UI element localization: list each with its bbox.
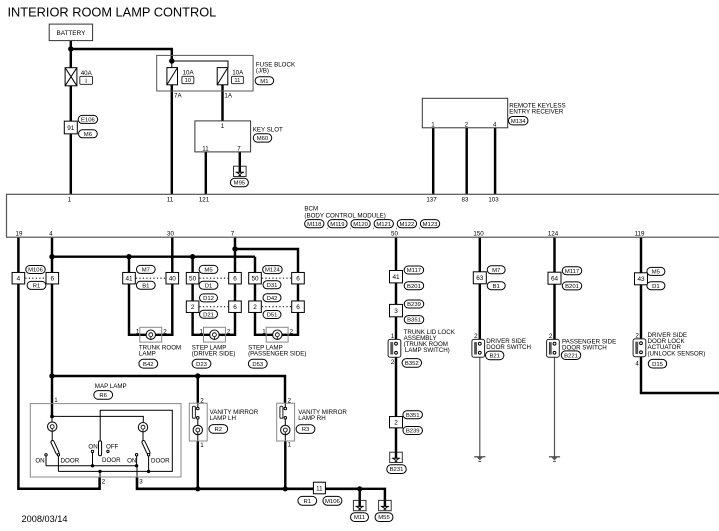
svg-text:E106: E106 [81, 118, 95, 124]
svg-text:2: 2 [549, 333, 553, 340]
svg-text:11: 11 [316, 485, 323, 492]
svg-text:M60: M60 [257, 136, 269, 142]
svg-text:40: 40 [169, 276, 177, 283]
svg-text:1: 1 [288, 442, 292, 449]
svg-text:103: 103 [488, 197, 499, 204]
svg-text:B239: B239 [406, 429, 420, 435]
svg-text:R2: R2 [215, 427, 223, 433]
svg-text:10A: 10A [183, 69, 195, 76]
svg-text:2: 2 [635, 333, 639, 340]
svg-text:1: 1 [431, 121, 435, 128]
svg-text:50: 50 [251, 276, 259, 283]
svg-text:DOOR: DOOR [102, 457, 121, 464]
svg-text:D23: D23 [196, 362, 208, 368]
svg-text:6: 6 [296, 276, 300, 283]
svg-text:M1: M1 [260, 79, 268, 85]
svg-text:B1: B1 [493, 284, 500, 290]
svg-text:M106: M106 [28, 268, 43, 274]
svg-text:2: 2 [290, 328, 294, 335]
svg-text:1A: 1A [224, 92, 232, 99]
svg-text:KEY SLOT: KEY SLOT [253, 127, 283, 134]
svg-text:6: 6 [233, 276, 237, 283]
svg-text:D42: D42 [267, 296, 278, 302]
svg-text:6: 6 [296, 304, 300, 311]
svg-text:4: 4 [635, 360, 639, 367]
svg-text:4: 4 [493, 121, 497, 128]
svg-text:63: 63 [476, 275, 484, 282]
svg-text:11: 11 [167, 197, 174, 204]
svg-text:M120: M120 [353, 222, 368, 228]
svg-text:M119: M119 [330, 222, 344, 228]
svg-text:ON: ON [88, 444, 97, 451]
svg-text:83: 83 [462, 197, 469, 204]
svg-text:M121: M121 [376, 222, 391, 228]
svg-text:D15: D15 [652, 362, 664, 368]
svg-text:6: 6 [233, 304, 237, 311]
svg-text:2: 2 [200, 397, 204, 404]
svg-text:2: 2 [288, 397, 292, 404]
svg-text:M55: M55 [378, 515, 390, 521]
svg-text:D12: D12 [203, 296, 214, 302]
svg-text:2: 2 [191, 304, 195, 311]
svg-text:DOOR: DOOR [151, 457, 170, 464]
svg-text:D21: D21 [203, 312, 214, 318]
svg-text:M7: M7 [492, 268, 500, 274]
svg-text:MAP LAMP: MAP LAMP [95, 383, 127, 390]
svg-text:B42: B42 [143, 362, 153, 368]
svg-text:M5: M5 [652, 270, 661, 276]
svg-text:1: 1 [200, 328, 204, 335]
svg-text:B351: B351 [406, 413, 420, 419]
svg-text:M5: M5 [204, 268, 213, 274]
svg-text:DOOR SWITCH: DOOR SWITCH [486, 344, 531, 351]
svg-text:B201: B201 [565, 284, 579, 290]
svg-text:2: 2 [465, 121, 469, 128]
svg-text:2: 2 [394, 420, 398, 427]
svg-text:(PASSENGER SIDE): (PASSENGER SIDE) [248, 351, 306, 358]
svg-text:(BODY CONTROL MODULE): (BODY CONTROL MODULE) [304, 212, 385, 219]
svg-text:2: 2 [102, 479, 106, 486]
svg-text:2: 2 [227, 328, 231, 335]
svg-text:M123: M123 [423, 222, 438, 228]
svg-text:M117: M117 [565, 269, 579, 275]
svg-text:1: 1 [221, 123, 225, 130]
svg-text:(DRIVER SIDE): (DRIVER SIDE) [192, 351, 236, 358]
svg-text:10A: 10A [232, 69, 244, 76]
svg-text:2: 2 [391, 359, 395, 366]
svg-text:M117: M117 [407, 268, 421, 274]
svg-text:41: 41 [125, 276, 133, 283]
svg-text:150: 150 [473, 231, 484, 238]
svg-text:41: 41 [392, 274, 400, 281]
svg-text:7: 7 [231, 231, 235, 238]
svg-text:D53: D53 [252, 362, 264, 368]
svg-text:D1: D1 [652, 284, 660, 290]
svg-text:B1: B1 [142, 283, 149, 289]
svg-text:43: 43 [637, 276, 645, 283]
svg-text:D1: D1 [205, 283, 213, 289]
svg-text:11: 11 [202, 145, 209, 152]
svg-text:2: 2 [253, 304, 257, 311]
svg-text:M106: M106 [325, 499, 340, 505]
svg-text:M11: M11 [354, 515, 365, 521]
svg-text:1: 1 [262, 328, 266, 335]
svg-text:64: 64 [551, 276, 559, 283]
svg-text:OFF: OFF [106, 444, 119, 451]
svg-text:INTERIOR ROOM LAMP CONTROL: INTERIOR ROOM LAMP CONTROL [8, 5, 217, 20]
svg-text:B231: B231 [390, 467, 404, 473]
svg-text:B239: B239 [407, 302, 421, 308]
svg-text:B221: B221 [564, 353, 578, 359]
svg-text:M118: M118 [307, 222, 322, 228]
svg-text:19: 19 [16, 231, 23, 238]
svg-text:119: 119 [635, 231, 645, 238]
svg-text:1: 1 [54, 397, 58, 404]
svg-text:LAMP RH: LAMP RH [298, 415, 325, 422]
svg-text:ENTRY RECEIVER: ENTRY RECEIVER [509, 108, 564, 115]
svg-text:(J/B): (J/B) [256, 68, 269, 75]
svg-text:LAMP: LAMP [139, 351, 156, 358]
svg-text:D31: D31 [267, 283, 278, 289]
svg-text:7A: 7A [174, 92, 182, 99]
svg-text:LAMP SWITCH): LAMP SWITCH) [405, 347, 450, 354]
svg-text:3: 3 [394, 308, 398, 315]
svg-text:6: 6 [51, 276, 55, 283]
svg-text:2008/03/14: 2008/03/14 [22, 514, 68, 524]
svg-text:50: 50 [391, 231, 398, 238]
svg-text:LAMP LH: LAMP LH [210, 415, 236, 422]
svg-text:10: 10 [185, 78, 191, 84]
svg-text:M134: M134 [511, 119, 526, 125]
svg-text:R3: R3 [302, 427, 310, 433]
svg-text:ON: ON [35, 457, 44, 464]
svg-text:DOOR: DOOR [61, 457, 80, 464]
svg-text:1: 1 [68, 197, 72, 204]
svg-text:R6: R6 [99, 393, 107, 399]
svg-text:121: 121 [199, 197, 210, 204]
svg-text:7: 7 [237, 145, 241, 152]
svg-text:B21: B21 [489, 354, 499, 360]
svg-text:2: 2 [474, 333, 478, 340]
svg-text:4: 4 [17, 276, 21, 283]
svg-text:B351: B351 [407, 318, 421, 324]
svg-text:1: 1 [200, 442, 204, 449]
svg-text:B201: B201 [407, 284, 421, 290]
svg-text:R1: R1 [304, 499, 312, 505]
svg-text:2: 2 [163, 328, 167, 335]
svg-text:BATTERY: BATTERY [56, 30, 86, 37]
svg-text:137: 137 [426, 197, 437, 204]
svg-text:4: 4 [49, 231, 53, 238]
svg-text:1: 1 [136, 328, 140, 335]
svg-text:B352: B352 [405, 361, 419, 367]
svg-text:D51: D51 [267, 313, 278, 319]
svg-text:91: 91 [67, 125, 75, 132]
svg-text:30: 30 [167, 231, 174, 238]
svg-text:M95: M95 [234, 181, 246, 187]
svg-text:50: 50 [189, 276, 197, 283]
svg-text:124: 124 [548, 231, 559, 238]
svg-text:40A: 40A [81, 70, 93, 77]
svg-text:1: 1 [391, 333, 395, 340]
svg-text:M7: M7 [142, 268, 150, 274]
svg-text:M122: M122 [400, 222, 415, 228]
svg-text:11: 11 [234, 78, 240, 84]
svg-text:ON: ON [127, 457, 136, 464]
svg-text:M124: M124 [265, 268, 280, 274]
svg-text:(UNLOCK SENSOR): (UNLOCK SENSOR) [648, 351, 706, 358]
svg-text:R1: R1 [33, 284, 41, 290]
svg-text:M6: M6 [84, 132, 93, 138]
svg-text:3: 3 [139, 479, 143, 486]
